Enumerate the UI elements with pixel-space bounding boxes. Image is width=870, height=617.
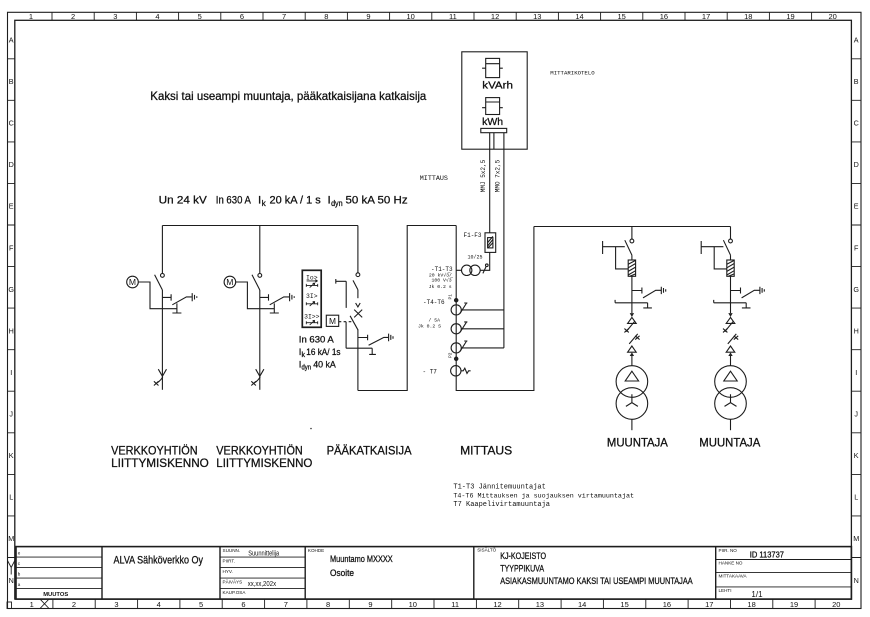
wire: LV lead out xyxy=(631,419,633,430)
VT secondary disconnect slash xyxy=(483,266,486,273)
svg-text:H: H xyxy=(9,326,14,335)
svg-text:D: D xyxy=(9,160,14,169)
svg-text:6: 6 xyxy=(240,12,244,21)
wire: drop from busbar xyxy=(357,226,359,273)
svg-text:MUUNTAJA: MUUNTAJA xyxy=(699,437,760,449)
earth-switch blade xyxy=(172,297,192,305)
ground: earth electrode (rotated) xyxy=(389,334,393,342)
svg-text:2: 2 xyxy=(71,12,75,21)
kVArh meter symbol xyxy=(486,58,500,77)
svg-text:L: L xyxy=(854,493,858,502)
voltage transformer branch wire xyxy=(456,269,461,271)
cable termination: solid arrow down xyxy=(630,313,634,317)
svg-text:MITTARIKOTELO: MITTARIKOTELO xyxy=(550,70,595,77)
svg-text:5: 5 xyxy=(199,600,203,609)
fuse with striker (hatched) xyxy=(628,260,635,276)
top ruler numbers xyxy=(29,12,837,21)
svg-text:40 kA: 40 kA xyxy=(313,358,336,369)
transformer secondary winding (wye) xyxy=(616,388,648,420)
svg-text:LEHTI: LEHTI xyxy=(719,588,732,593)
svg-text:18: 18 xyxy=(747,600,755,609)
svg-text:b: b xyxy=(18,572,21,578)
svg-text:F1-F3: F1-F3 xyxy=(464,232,482,239)
svg-text:T7 Kaapelivirtamuuntaja: T7 Kaapelivirtamuuntaja xyxy=(453,501,550,509)
svg-text:P2: P2 xyxy=(448,352,454,358)
svg-text:M: M xyxy=(8,534,14,543)
svg-text:MUUTOS: MUUTOS xyxy=(43,592,68,598)
svg-text:A: A xyxy=(854,36,859,45)
svg-text:MITTAUS: MITTAUS xyxy=(460,443,512,457)
svg-text:G: G xyxy=(853,285,859,294)
svg-text:MITTAKAAVA: MITTAKAAVA xyxy=(719,574,748,579)
svg-text:100 V√3̅: 100 V√3̅ xyxy=(432,276,454,283)
breaker trip arrow xyxy=(356,303,361,307)
fold mark Y on left band xyxy=(8,561,15,575)
svg-text:TYYPPIKUVA: TYYPPIKUVA xyxy=(500,564,544,574)
svg-text:4: 4 xyxy=(155,12,159,21)
svg-text:L: L xyxy=(9,493,13,502)
right ruler letters xyxy=(853,36,859,585)
svg-text:J: J xyxy=(9,410,13,419)
svg-text:E: E xyxy=(9,202,14,211)
svg-text:19: 19 xyxy=(786,12,794,21)
suunn column labels xyxy=(223,548,247,595)
svg-text:8: 8 xyxy=(326,600,330,609)
cable direction pigtail arrow xyxy=(156,377,162,383)
svg-text:20: 20 xyxy=(832,600,840,609)
earthing linkage U-path xyxy=(615,300,652,308)
current transformer T6 xyxy=(451,343,461,353)
svg-text:7: 7 xyxy=(282,12,286,21)
svg-text:14: 14 xyxy=(578,600,586,609)
wire: fuse down to cable termination xyxy=(631,276,633,313)
wire: meter cable MMO xyxy=(503,149,505,348)
ground: earth electrode (rotated) xyxy=(661,287,665,294)
wire: VT secondary to fuse xyxy=(480,252,490,270)
svg-text:F: F xyxy=(9,243,14,252)
operating linkage with tick xyxy=(603,241,629,269)
corner trim square bottom-left xyxy=(7,602,12,609)
top ruler band dividers xyxy=(52,12,812,20)
svg-text:20 kV√3̅/: 20 kV√3̅/ xyxy=(429,271,452,278)
switch blade S1 xyxy=(155,275,163,290)
kWh meter symbol xyxy=(486,98,500,115)
node: open line contact xyxy=(161,274,165,278)
legend text xyxy=(453,484,634,510)
cable termination cone (lower) xyxy=(628,346,637,352)
svg-text:ALVA Sähköverkko Oy: ALVA Sähköverkko Oy xyxy=(114,554,204,566)
svg-text:3I>: 3I> xyxy=(306,293,318,300)
operating linkage with end tick xyxy=(336,279,346,308)
svg-text:ID 113737: ID 113737 xyxy=(750,549,784,559)
svg-text:C: C xyxy=(9,119,14,128)
transformer primary winding (delta) xyxy=(616,366,648,398)
svg-text:1: 1 xyxy=(29,12,33,21)
svg-text:SUUNN.: SUUNN. xyxy=(223,548,241,553)
svg-text:5: 5 xyxy=(198,12,202,21)
svg-text:11: 11 xyxy=(451,600,459,609)
motor operator box M xyxy=(326,315,338,326)
svg-text:12: 12 xyxy=(493,600,501,609)
svg-text:T1-T3 Jännitemuuntajat: T1-T3 Jännitemuuntajat xyxy=(453,484,545,492)
svg-text:16 kA/ 1s: 16 kA/ 1s xyxy=(306,346,340,357)
svg-text:D: D xyxy=(854,160,859,169)
svg-text:I: I xyxy=(10,368,12,377)
svg-text:MITTAUS: MITTAUS xyxy=(420,175,448,183)
svg-text:N: N xyxy=(9,576,14,585)
svg-text:M: M xyxy=(853,534,859,543)
svg-text:K: K xyxy=(854,451,859,460)
cable termination arrow down xyxy=(158,369,166,376)
svg-text:8: 8 xyxy=(324,12,328,21)
svg-text:9: 9 xyxy=(366,12,370,21)
svg-text:B: B xyxy=(9,77,14,86)
svg-text:KAUP.OSA: KAUP.OSA xyxy=(223,590,247,595)
svg-text:1/1: 1/1 xyxy=(751,590,763,599)
protection relay box xyxy=(302,270,321,327)
bottom ruler band dividers xyxy=(53,599,815,608)
bay 3: main circuit breaker PAAKATKAISIJA xyxy=(299,226,393,391)
revision table rows xyxy=(16,557,102,589)
current transformer T5 xyxy=(451,324,461,334)
svg-text:J: J xyxy=(854,410,858,419)
node: open line contact xyxy=(630,239,634,243)
svg-text:E: E xyxy=(854,202,859,211)
svg-text:LIITTYMISKENNO: LIITTYMISKENNO xyxy=(216,456,312,470)
ratings line xyxy=(159,195,408,208)
svg-text:50 kA 50 Hz: 50 kA 50 Hz xyxy=(346,195,408,207)
svg-text:3I>>: 3I>> xyxy=(304,313,320,320)
svg-text:kWh: kWh xyxy=(482,116,503,128)
svg-text:10/25: 10/25 xyxy=(468,255,483,261)
svg-text:9: 9 xyxy=(368,600,372,609)
svg-text:13: 13 xyxy=(533,12,541,21)
svg-text:LIITTYMISKENNO: LIITTYMISKENNO xyxy=(111,456,209,470)
bay 1: network company incomer (ring switch with earthing), full group xyxy=(127,226,197,390)
T7 secondary zigzag lead xyxy=(461,368,471,373)
wire: blade to fuse xyxy=(631,255,633,260)
svg-text:16: 16 xyxy=(660,12,668,21)
svg-text:1: 1 xyxy=(30,600,34,609)
wire: drop from busbar xyxy=(161,226,163,274)
earth-switch fixed contact xyxy=(632,288,642,294)
svg-text:PÄIVÄYS: PÄIVÄYS xyxy=(223,578,243,584)
svg-text:Un 24 kV: Un 24 kV xyxy=(159,195,208,207)
fuse F1-F3 xyxy=(485,233,496,253)
svg-text:10: 10 xyxy=(407,12,415,21)
svg-text:17: 17 xyxy=(702,12,710,21)
svg-text:Suunnittelija: Suunnittelija xyxy=(248,550,279,557)
left ruler band dividers xyxy=(8,59,15,558)
svg-text:Kaksi tai useampi muuntaja, pä: Kaksi tai useampi muuntaja, pääkatkaisij… xyxy=(150,89,426,103)
svg-text:PÄÄKATKAISIJA: PÄÄKATKAISIJA xyxy=(327,443,412,457)
meter terminal bar xyxy=(481,128,507,132)
svg-text:20 kA / 1 s: 20 kA / 1 s xyxy=(270,195,321,207)
svg-text:P1: P1 xyxy=(448,294,454,300)
svg-text:In 630 A: In 630 A xyxy=(299,334,335,345)
svg-text:MUUNTAJA: MUUNTAJA xyxy=(607,437,668,449)
left ruler letters xyxy=(8,36,14,585)
svg-text:G: G xyxy=(8,285,14,294)
svg-text:a: a xyxy=(18,583,21,588)
wire: between disconnector and breaker xyxy=(357,290,359,299)
svg-text:7: 7 xyxy=(284,600,288,609)
svg-text:/ 5A: / 5A xyxy=(428,317,440,323)
svg-text:dyn: dyn xyxy=(331,199,343,208)
bottom ruler numbers xyxy=(30,600,841,609)
wires: terminal bar to box bottom xyxy=(490,133,504,150)
svg-text:H: H xyxy=(854,326,859,335)
svg-text:M: M xyxy=(329,316,336,326)
svg-text:K: K xyxy=(9,451,14,460)
svg-text:A: A xyxy=(9,36,14,45)
svg-text:-T4-T6: -T4-T6 xyxy=(423,299,445,306)
meter cabinet box xyxy=(462,52,527,149)
svg-text:KOHDE: KOHDE xyxy=(308,548,324,553)
svg-text:20: 20 xyxy=(829,12,837,21)
right ruler band dividers xyxy=(851,59,861,558)
wire: metering bay primary conductor xyxy=(456,226,534,391)
bay name labels xyxy=(111,437,761,470)
switch-fuse blade xyxy=(625,240,632,255)
current transformer T4 xyxy=(451,305,461,315)
revision row letters xyxy=(18,552,21,589)
title block outline xyxy=(16,547,851,600)
svg-text:Jk 0.2 s: Jk 0.2 s xyxy=(429,284,452,290)
cable pigtail arrow (upper) xyxy=(626,321,635,331)
svg-text:18: 18 xyxy=(744,12,752,21)
svg-text:e: e xyxy=(18,552,21,557)
svg-text:F: F xyxy=(854,243,859,252)
svg-text:SISÄLTÖ: SISÄLTÖ xyxy=(477,546,496,552)
earth-switch blade xyxy=(643,290,661,298)
wire: main conductor down xyxy=(161,290,163,390)
VT ratio labels xyxy=(429,271,454,290)
svg-text:PIIRT.: PIIRT. xyxy=(223,558,235,563)
svg-text:dyn: dyn xyxy=(302,364,312,371)
svg-text:MMO 7x2,5: MMO 7x2,5 xyxy=(495,159,502,192)
transformer bay 2 MUUNTAJA (copy) xyxy=(701,227,764,431)
svg-text:In 630 A: In 630 A xyxy=(216,195,251,207)
svg-text:10: 10 xyxy=(409,600,417,609)
svg-text:N: N xyxy=(854,576,859,585)
svg-text:-T1-T3: -T1-T3 xyxy=(431,266,453,273)
svg-text:11: 11 xyxy=(449,12,457,21)
wire: into transformer xyxy=(631,356,633,366)
voltage transformer T1-T3 xyxy=(462,265,472,275)
suunn column rows xyxy=(220,557,305,589)
svg-text:ASIAKASMUUNTAMO KAKSI TAI USEA: ASIAKASMUUNTAMO KAKSI TAI USEAMPI MUUNTA… xyxy=(500,576,693,586)
svg-text:17: 17 xyxy=(705,600,713,609)
svg-text:3: 3 xyxy=(114,600,118,609)
breaker blade xyxy=(350,316,358,330)
wire: metering loop (breaker bay to metering bay) xyxy=(358,226,456,391)
svg-text:14: 14 xyxy=(575,12,583,21)
svg-text:12: 12 xyxy=(491,12,499,21)
svg-text:3: 3 xyxy=(113,12,117,21)
CT ratio labels xyxy=(418,317,441,329)
svg-text:6: 6 xyxy=(241,600,245,609)
svg-text:4: 4 xyxy=(157,600,161,609)
svg-text:- T7: - T7 xyxy=(423,369,438,376)
wire: fuse to meter box xyxy=(489,149,491,233)
svg-text:KJ-KOJEISTO: KJ-KOJEISTO xyxy=(500,551,546,561)
stray dot xyxy=(310,428,312,430)
svg-text:c: c xyxy=(18,562,21,567)
svg-text:B: B xyxy=(854,77,859,86)
earth-switch pivot post xyxy=(172,303,181,313)
earth-switch fixed contact xyxy=(358,335,368,341)
cable CT T7 xyxy=(451,366,461,376)
svg-text:Osoite: Osoite xyxy=(330,568,354,578)
svg-text:k: k xyxy=(302,352,306,359)
svg-text:M: M xyxy=(129,277,136,287)
svg-text:19: 19 xyxy=(790,600,798,609)
piir-no column rows xyxy=(716,560,852,587)
svg-text:HYV.: HYV. xyxy=(223,569,233,574)
wire: main conductor down to metering loop xyxy=(357,330,359,391)
svg-text:PIIR. NO: PIIR. NO xyxy=(719,548,738,553)
wire: M box linkage xyxy=(339,322,351,349)
earthing linkage U-path xyxy=(346,348,376,354)
wire: top busbar left section xyxy=(162,225,358,227)
svg-text:15: 15 xyxy=(620,600,628,609)
node P1 junction dot xyxy=(455,299,458,302)
svg-text:T4-T6 Mittauksen ja suojauksen: T4-T6 Mittauksen ja suojauksen virtamuun… xyxy=(453,492,634,500)
wire: CT secondary leads xyxy=(461,310,504,348)
cable termination cone (upper) xyxy=(628,317,637,323)
wire: drop from busbar xyxy=(631,227,633,240)
title block column dividers xyxy=(102,547,716,600)
svg-text:kVArh: kVArh xyxy=(482,80,513,92)
cable termination: solid arrow up xyxy=(630,352,634,356)
svg-text:Muuntamo MXXXX: Muuntamo MXXXX xyxy=(330,554,393,564)
breaker rating text xyxy=(299,334,341,372)
transformer bay 1 MUUNTAJA xyxy=(603,227,666,431)
svg-text:MMJ 5x2,5: MMJ 5x2,5 xyxy=(480,159,487,192)
svg-text:HANKE NO: HANKE NO xyxy=(719,561,743,566)
disconnector blade xyxy=(353,280,358,289)
fold mark X in bottom band xyxy=(40,599,49,608)
svg-text:15: 15 xyxy=(618,12,626,21)
svg-text:Jk 0.2 S: Jk 0.2 S xyxy=(418,323,441,329)
motor operator M xyxy=(127,276,139,288)
wire: motor linkage U-path xyxy=(138,282,177,309)
svg-text:I: I xyxy=(855,368,857,377)
svg-text:2: 2 xyxy=(72,600,76,609)
earth-switch fixed contact xyxy=(162,294,171,300)
cable pigtail arrow (lower) xyxy=(629,334,638,344)
svg-text:16: 16 xyxy=(663,600,671,609)
earth-switch blade xyxy=(369,337,389,345)
svg-text:xx,xx,202x: xx,xx,202x xyxy=(248,581,277,588)
bay 2: network company incomer (copy of bay 1) xyxy=(224,226,294,390)
node P2 junction dot xyxy=(455,357,458,360)
circuit breaker X xyxy=(354,310,362,318)
node: open line contact xyxy=(356,273,360,277)
ground: earth electrode (rotated) xyxy=(192,293,197,301)
wire: top busbar right section xyxy=(534,226,731,228)
svg-text:13: 13 xyxy=(536,600,544,609)
svg-text:C: C xyxy=(854,119,859,128)
